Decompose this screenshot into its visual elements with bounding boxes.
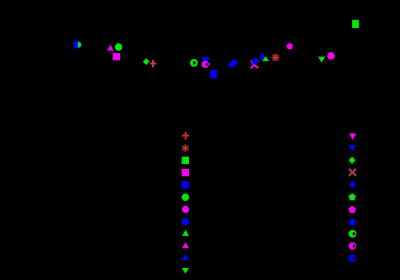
legend R3: green diamond — [349, 157, 356, 164]
scatter marker N: magenta pentagon — [286, 43, 293, 50]
legend L11: blue triangle-up — [182, 254, 189, 260]
legend R2: blue triangle-down — [348, 145, 356, 151]
scatter marker P: magenta gear circle — [327, 52, 335, 60]
legend R4: red X — [349, 169, 356, 176]
scatter marker E: green diamond — [143, 58, 150, 65]
legend L10: magenta triangle-up — [182, 242, 189, 248]
scatter marker M: dark red 8-arm star — [272, 54, 280, 62]
scatter marker A: blue octagon with green right half-disc — [74, 41, 82, 48]
legend L4: magenta square — [182, 169, 189, 176]
legend R10: magenta circle with black right half-disc — [349, 242, 356, 249]
legend R8: blue pentagon — [349, 218, 356, 225]
scatter marker K: brown X, magenta X, blue hexagon stack — [251, 58, 259, 69]
legend L2: red asterisk — [182, 144, 189, 151]
legend L7: magenta circle — [182, 206, 189, 213]
legend R11: blue circle with black right half-disc — [349, 254, 356, 261]
scatter marker C: green circle — [115, 43, 123, 51]
scatter marker G: green circle with black right half-disc — [190, 59, 198, 67]
legend R6: green pentagon — [349, 193, 356, 200]
legend R1: magenta triangle-down — [349, 133, 356, 140]
legend L5: blue square — [182, 181, 189, 188]
legend R5: blue diamond — [349, 181, 356, 188]
scatter marker B: magenta triangle-up — [107, 45, 114, 51]
scatter marker F: dark red plus — [150, 60, 156, 67]
scatter marker D: magenta square — [113, 53, 120, 60]
legend L8: blue circle — [182, 218, 189, 225]
scatter marker O: green triangle-down — [318, 57, 325, 63]
scatter marker J: blue double diamond arrow — [227, 59, 238, 68]
legend R7: magenta pentagon — [349, 206, 356, 213]
legend L1: red plus — [182, 132, 189, 140]
scatter marker L: blue and green triangles-up — [259, 52, 269, 61]
scatter marker I: blue square — [210, 70, 217, 78]
legend L9: green triangle-up — [182, 230, 189, 236]
legend L6: green circle — [182, 193, 190, 201]
scatter marker H: blue triangle-down over magenta half-filled circle with right tip — [202, 57, 211, 68]
scatter marker Q: green square top right — [352, 20, 359, 28]
legend R9: green circle with black right half-disc — [349, 230, 357, 238]
legend L3: green square — [182, 157, 189, 164]
legend L12: green triangle-down — [182, 268, 189, 274]
